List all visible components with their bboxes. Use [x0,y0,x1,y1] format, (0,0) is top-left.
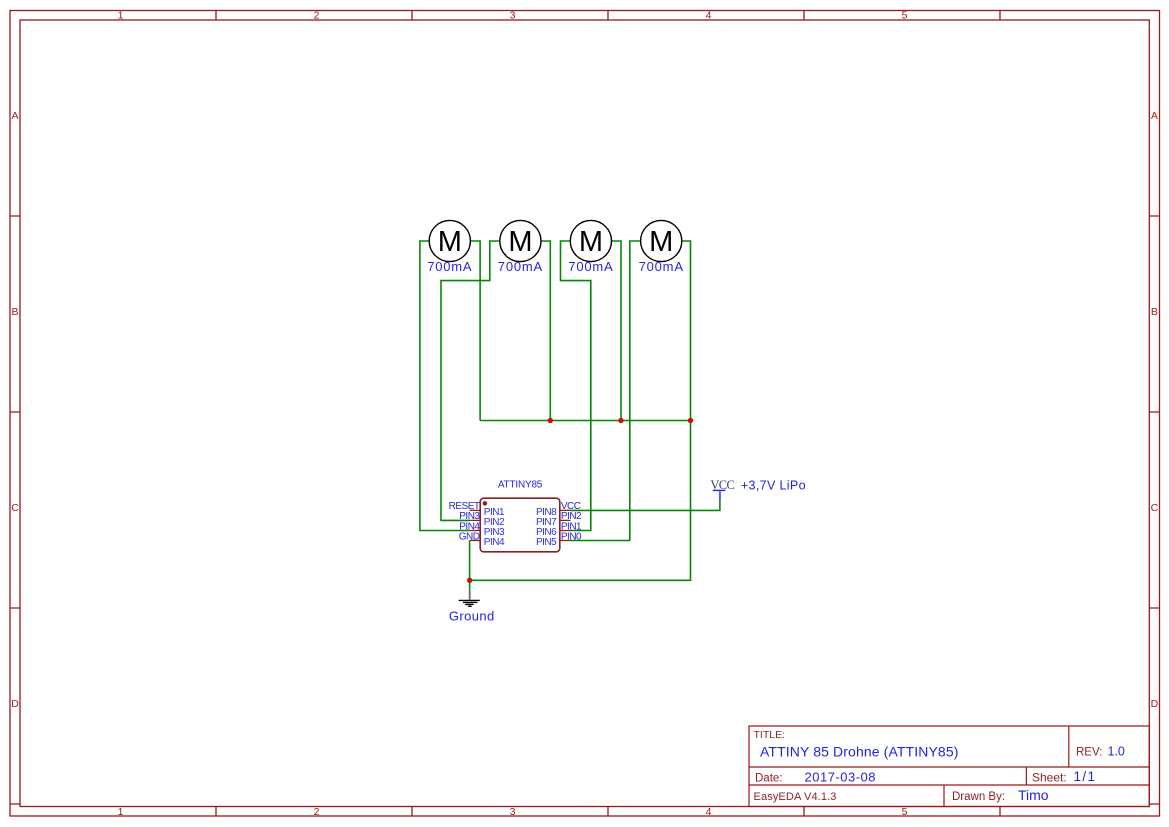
svg-text:REV:: REV: [1076,747,1102,759]
wire VCC net: chip pin8 to VCC flag [571,500,720,510]
pin names inside chip [484,507,557,548]
svg-text:EasyEDA V4.1.3: EasyEDA V4.1.3 [754,791,837,803]
svg-text:GND: GND [459,531,480,542]
svg-text:C: C [1151,502,1159,514]
svg-text:3: 3 [510,806,516,818]
svg-text:ATTINY 85 Drohne (ATTINY85): ATTINY 85 Drohne (ATTINY85) [760,744,959,760]
junction dot at (690,420) [688,418,693,423]
svg-text:4: 4 [706,806,712,818]
svg-text:D: D [1151,698,1159,710]
svg-text:PIN5: PIN5 [536,537,557,548]
wire PIN4 net: motor M1 left to chip pin3 [420,241,470,531]
svg-text:700mA: 700mA [639,259,684,274]
svg-text:B: B [1151,306,1158,318]
wire GND bus: motor right leads to ground [470,241,691,580]
svg-text:700mA: 700mA [427,259,472,274]
svg-text:B: B [11,306,18,318]
pin stubs left (pins 1-4) [470,510,481,540]
pin stubs right (pins 8-5) [560,510,571,540]
power flag VCC [710,478,734,500]
svg-text:Sheet:: Sheet: [1032,770,1067,784]
junction dot at ground node [467,578,472,583]
wire PIN3 net: motor M2 left to chip pin2 [441,241,500,520]
svg-text:+3,7V LiPo: +3,7V LiPo [741,479,806,493]
svg-text:2017-03-08: 2017-03-08 [805,769,877,784]
svg-text:D: D [11,698,19,710]
svg-text:Timo: Timo [1018,787,1049,803]
svg-text:M: M [579,226,603,258]
svg-text:M: M [649,226,673,258]
svg-text:3: 3 [510,10,516,22]
motor M1 [429,220,470,261]
svg-text:1: 1 [118,10,124,22]
svg-text:PIN0: PIN0 [561,531,582,542]
wire PIN0 net: motor M4 left to chip pin5 [571,241,641,541]
IC U1 ATTINY85 body [480,498,560,552]
svg-text:700mA: 700mA [498,259,543,274]
svg-text:700mA: 700mA [568,259,613,274]
svg-text:1.0: 1.0 [1108,745,1125,759]
svg-text:Ground: Ground [449,609,495,624]
wire PIN1 net: motor M3 left to chip pin6 [561,241,591,531]
svg-text:M: M [438,226,462,258]
motor M4 [641,220,682,261]
junction dot at (550,420) [548,418,553,423]
svg-text:TITLE:: TITLE: [754,729,786,741]
svg-text:1/1: 1/1 [1074,769,1097,784]
ground symbol [459,590,479,606]
svg-text:4: 4 [706,10,712,22]
svg-text:2: 2 [314,10,320,22]
svg-text:A: A [11,110,18,122]
svg-text:C: C [11,502,19,514]
svg-text:5: 5 [902,806,908,818]
wire GND: chip pin4 to ground junction [469,541,471,591]
svg-text:A: A [1151,110,1158,122]
svg-text:Drawn By:: Drawn By: [952,791,1005,803]
svg-text:ATTINY85: ATTINY85 [498,479,543,490]
svg-text:Date:: Date: [755,772,783,784]
title block frame [749,726,1149,807]
junction dot at (621,420) [618,418,623,423]
svg-text:PIN4: PIN4 [484,537,505,548]
svg-text:2: 2 [314,806,320,818]
motor M3 [570,220,611,261]
svg-text:M: M [508,226,532,258]
svg-text:1: 1 [118,806,124,818]
svg-text:5: 5 [902,10,908,22]
motor M2 [500,220,541,261]
